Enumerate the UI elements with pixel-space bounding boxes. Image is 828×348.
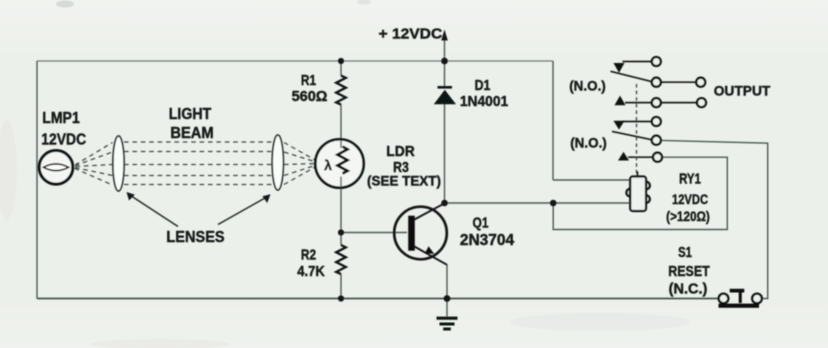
- svg-text:4.7K: 4.7K: [297, 264, 325, 280]
- svg-text:R1: R1: [301, 72, 316, 88]
- svg-text:+ 12VDC: + 12VDC: [379, 26, 443, 43]
- svg-text:LENSES: LENSES: [166, 229, 224, 247]
- svg-text:12VDC: 12VDC: [672, 192, 708, 207]
- svg-text:12VDC: 12VDC: [41, 131, 86, 149]
- svg-text:(N.C.): (N.C.): [669, 282, 708, 298]
- svg-text:Q1: Q1: [472, 214, 489, 230]
- svg-text:RY1: RY1: [679, 170, 701, 187]
- svg-text:LIGHT: LIGHT: [169, 105, 212, 123]
- svg-text:S1: S1: [678, 244, 692, 261]
- svg-text:(N.O.): (N.O.): [570, 135, 607, 150]
- svg-text:560Ω: 560Ω: [292, 89, 328, 105]
- svg-text:(>120Ω): (>120Ω): [666, 208, 710, 224]
- svg-text:LMP1: LMP1: [42, 109, 80, 127]
- svg-text:(N.O.): (N.O.): [569, 78, 606, 93]
- svg-text:λ: λ: [324, 157, 332, 173]
- svg-text:BEAM: BEAM: [170, 125, 213, 143]
- svg-text:LDR: LDR: [386, 143, 415, 160]
- svg-text:1N4001: 1N4001: [460, 94, 508, 111]
- svg-text:(SEE TEXT): (SEE TEXT): [367, 173, 441, 188]
- svg-text:R2: R2: [301, 247, 316, 263]
- svg-text:OUTPUT: OUTPUT: [714, 84, 771, 99]
- svg-text:2N3704: 2N3704: [460, 232, 515, 249]
- svg-text:D1: D1: [475, 77, 491, 93]
- svg-text:RESET: RESET: [668, 263, 710, 279]
